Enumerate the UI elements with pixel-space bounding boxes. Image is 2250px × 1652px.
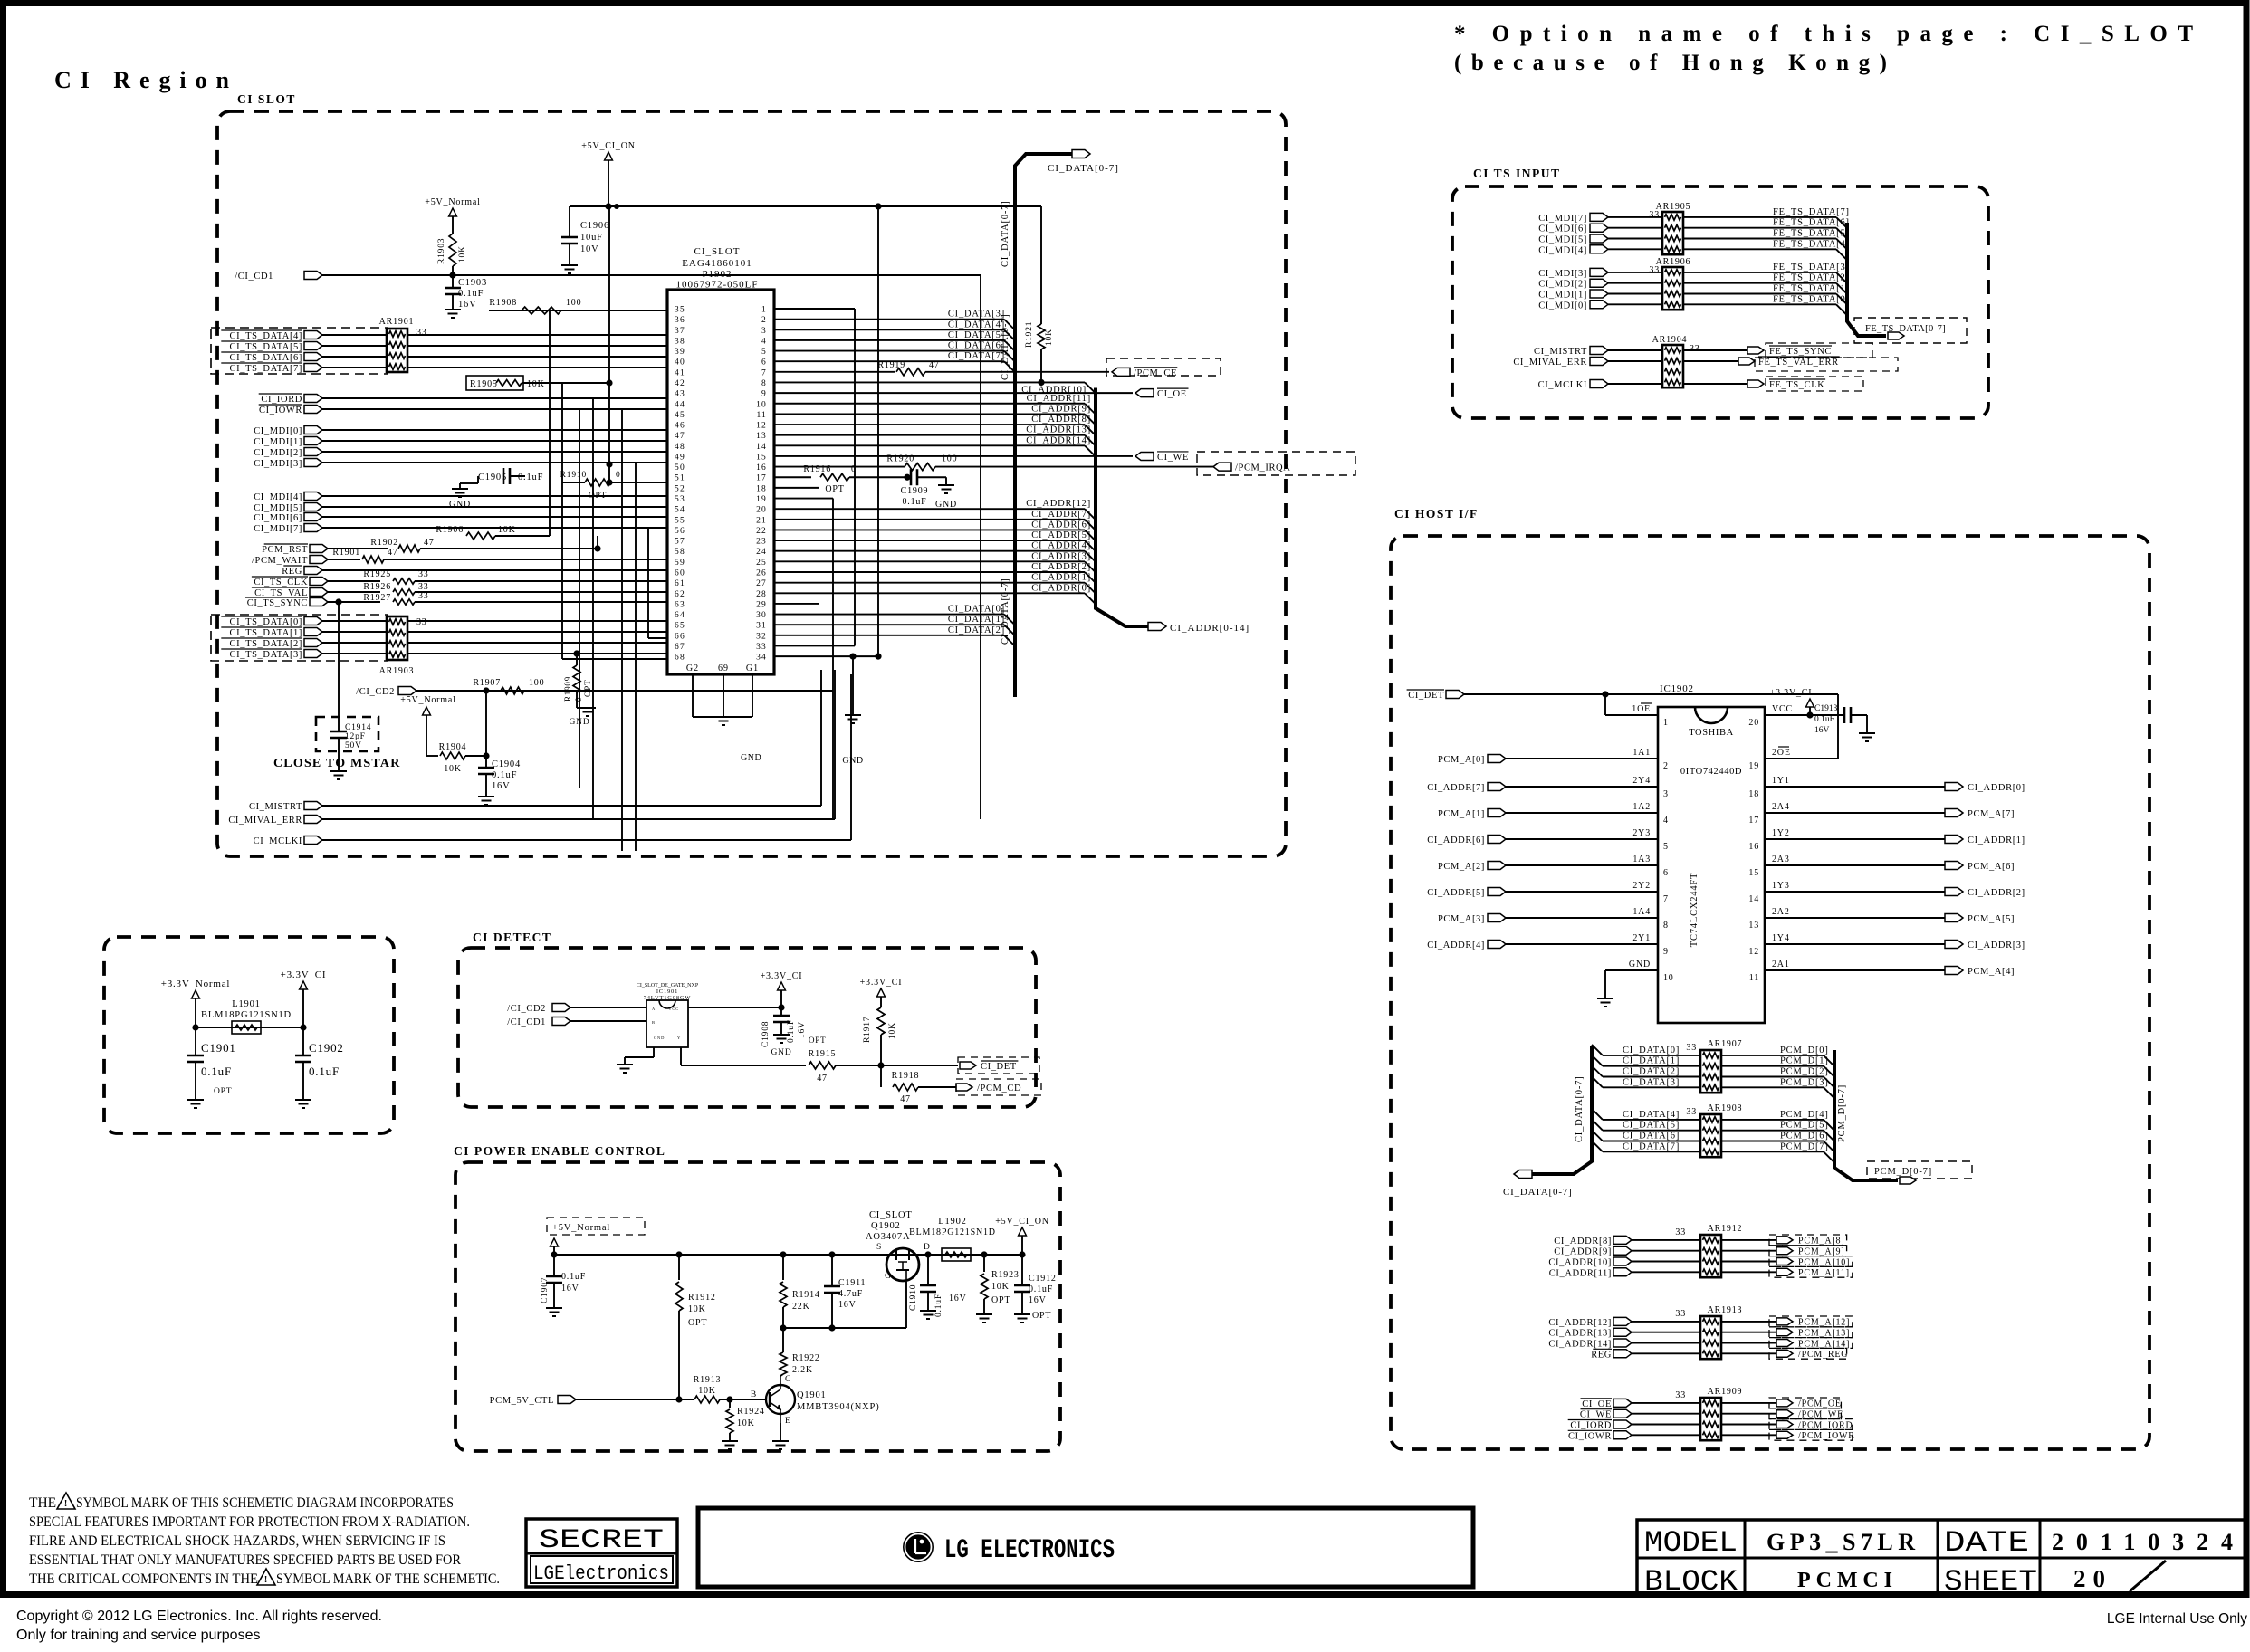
svg-text:19: 19 — [1748, 761, 1759, 771]
svg-text:2Y3: 2Y3 — [1632, 828, 1651, 838]
svg-text:CI_DATA[4]: CI_DATA[4] — [1623, 1110, 1680, 1120]
svg-text:18: 18 — [756, 484, 767, 493]
svg-text:MODEL: MODEL — [1644, 1526, 1738, 1560]
wires CI_ADDR lower rows — [774, 508, 1085, 510]
svg-text:OPT: OPT — [825, 484, 844, 494]
ground C1907 — [546, 1307, 562, 1309]
wire gate out — [680, 1047, 682, 1065]
capacitor C1911 — [831, 1255, 833, 1286]
svg-text:CI_MDI[1]: CI_MDI[1] — [1538, 291, 1587, 301]
svg-text:74LVT1G08GW: 74LVT1G08GW — [644, 995, 692, 1001]
ground C1903 — [445, 309, 461, 310]
svg-text:PCM_D[3]: PCM_D[3] — [1780, 1077, 1829, 1087]
bus CI_ADDR vertical — [1096, 387, 1148, 626]
ground C1902 — [295, 1099, 311, 1101]
svg-text:CI_DET: CI_DET — [1408, 691, 1444, 701]
svg-text:10K: 10K — [527, 379, 545, 389]
svg-text:48: 48 — [675, 443, 685, 452]
svg-text:FE_TS_DATA[0]: FE_TS_DATA[0] — [1773, 294, 1850, 304]
svg-text:CI_ADDR[12]: CI_ADDR[12] — [1548, 1318, 1612, 1328]
svg-text:10uF: 10uF — [580, 233, 603, 243]
svg-text:52: 52 — [675, 484, 685, 493]
svg-text:C1910: C1910 — [909, 1284, 918, 1311]
svg-text:BLM18PG121SN1D: BLM18PG121SN1D — [909, 1227, 996, 1237]
capacitor C1912 — [1021, 1255, 1023, 1285]
svg-text:0.1uF: 0.1uF — [309, 1065, 340, 1078]
resistor R1919 — [774, 371, 895, 373]
svg-text:16: 16 — [756, 463, 767, 473]
svg-text:12: 12 — [756, 422, 767, 431]
connector CI_WE — [774, 455, 1133, 457]
svg-text:6: 6 — [761, 358, 767, 368]
svg-text:0.1uF: 0.1uF — [561, 1272, 586, 1282]
bus CI_DATA host — [1532, 1046, 1592, 1174]
wires CI_DATA[0-2] rows — [774, 614, 1004, 616]
svg-text:16: 16 — [1748, 842, 1759, 852]
svg-text:FE_TS_VAL_ERR: FE_TS_VAL_ERR — [1758, 358, 1839, 368]
svg-text:16V: 16V — [492, 781, 510, 791]
svg-text:PCM_A[13]: PCM_A[13] — [1798, 1329, 1850, 1339]
svg-text:2.2K: 2.2K — [792, 1365, 813, 1375]
svg-text:CI_MDI[3]: CI_MDI[3] — [254, 459, 302, 469]
ground C1910 — [920, 1310, 936, 1312]
svg-text:PCM_D[1]: PCM_D[1] — [1780, 1056, 1829, 1066]
svg-text:CI_ADDR[2]: CI_ADDR[2] — [1031, 562, 1091, 572]
wires FE_TS_DATA[3-0] — [1683, 272, 1836, 273]
svg-text:/PCM_WE: /PCM_WE — [1798, 1410, 1843, 1420]
svg-text:16V: 16V — [1029, 1295, 1047, 1305]
svg-text:17: 17 — [1748, 816, 1759, 826]
svg-text:GND: GND — [570, 718, 590, 727]
resistor R1910 — [585, 479, 610, 486]
svg-text:12: 12 — [1748, 947, 1759, 957]
svg-text:CI_ADDR[12]: CI_ADDR[12] — [1026, 499, 1091, 509]
svg-text:PCM_A[10]: PCM_A[10] — [1798, 1257, 1850, 1267]
svg-text:/PCM_IRQA: /PCM_IRQA — [1235, 463, 1290, 473]
svg-text:CI_DATA[3]: CI_DATA[3] — [948, 310, 1005, 320]
svg-text:TOSHIBA: TOSHIBA — [1689, 728, 1734, 738]
svg-text:E: E — [785, 1417, 791, 1426]
svg-text:C1909: C1909 — [901, 486, 929, 496]
svg-text:CI_DATA[5]: CI_DATA[5] — [948, 330, 1005, 340]
connector CI_DATA[0-7] top — [1072, 150, 1090, 158]
svg-text:C: C — [785, 1375, 791, 1384]
svg-text:PCM_A[12]: PCM_A[12] — [1798, 1318, 1850, 1328]
svg-text:CI_ADDR[0-14]: CI_ADDR[0-14] — [1170, 623, 1249, 634]
resistor array AR1905 — [1662, 212, 1683, 254]
svg-text:50: 50 — [675, 463, 685, 473]
svg-text:54: 54 — [675, 506, 685, 515]
svg-text:14: 14 — [1748, 894, 1759, 904]
connector PCM_D[0-7] — [1867, 1161, 1972, 1179]
capacitor C1906 — [569, 206, 570, 237]
svg-text:CI_MDI[6]: CI_MDI[6] — [254, 513, 302, 523]
svg-text:C1911: C1911 — [838, 1278, 866, 1288]
svg-text:100: 100 — [942, 454, 957, 464]
svg-text:PCM_A[14]: PCM_A[14] — [1798, 1339, 1850, 1349]
svg-text:61: 61 — [675, 579, 685, 588]
svg-text:R1915: R1915 — [809, 1049, 837, 1059]
svg-text:22K: 22K — [792, 1302, 810, 1312]
wire row19 stub — [774, 498, 833, 500]
svg-text:2: 2 — [1663, 761, 1669, 771]
ground C1914 — [330, 770, 347, 772]
svg-text:AR1901: AR1901 — [379, 317, 415, 327]
svg-text:47: 47 — [424, 538, 435, 548]
wires CI_DATA[3-7] rows — [774, 319, 1004, 320]
svg-text:PCM_D[0-7]: PCM_D[0-7] — [1874, 1167, 1932, 1177]
svg-text:R1901: R1901 — [332, 548, 360, 558]
dashed bracket CI_TS_DATA[4-7] — [211, 328, 388, 374]
power +3.3V_CI det2 — [877, 988, 886, 997]
svg-text:1A3: 1A3 — [1632, 855, 1651, 864]
svg-text:CI_MDI[0]: CI_MDI[0] — [1538, 301, 1587, 310]
svg-text:18: 18 — [1748, 789, 1759, 799]
ground C1905 — [460, 482, 471, 484]
svg-text:AR1913: AR1913 — [1708, 1305, 1743, 1315]
capacitor C1910 — [927, 1255, 929, 1285]
svg-text:PCM_D[2]: PCM_D[2] — [1780, 1067, 1829, 1077]
svg-text:EAG41860101: EAG41860101 — [682, 258, 752, 269]
svg-text:22: 22 — [756, 527, 767, 536]
svg-text:VCC: VCC — [668, 1007, 679, 1011]
transistor Q1901 — [766, 1385, 795, 1414]
ground C1909 — [945, 477, 947, 485]
wire top rail — [570, 205, 1041, 207]
svg-text:50V: 50V — [345, 741, 362, 750]
wire CI_DET net — [1464, 693, 1838, 695]
ground Q1901 — [780, 1423, 781, 1441]
svg-text:25: 25 — [756, 559, 767, 568]
svg-text:CI_MDI[4]: CI_MDI[4] — [254, 492, 302, 502]
svg-text:CI_DATA[7]: CI_DATA[7] — [1623, 1141, 1680, 1151]
svg-text:7: 7 — [761, 368, 767, 377]
svg-text:R1908: R1908 — [489, 298, 517, 308]
label +5V_Normal dashed — [547, 1218, 645, 1235]
wire strand a — [561, 383, 563, 659]
svg-text:17: 17 — [756, 474, 767, 483]
svg-text:1Y1: 1Y1 — [1772, 776, 1790, 786]
wire CI_CD1 drop — [980, 275, 981, 819]
wire row34 to gnd — [774, 655, 878, 657]
ground R1923 — [976, 1313, 992, 1315]
svg-text:OPT: OPT — [583, 680, 592, 697]
svg-text:43: 43 — [675, 390, 685, 399]
svg-text:CI_ADDR[8]: CI_ADDR[8] — [1031, 415, 1091, 425]
capacitor C1907 — [553, 1255, 555, 1276]
svg-text:33: 33 — [418, 569, 429, 579]
svg-text:1Y3: 1Y3 — [1772, 881, 1790, 891]
svg-text:5: 5 — [761, 348, 767, 357]
svg-text:FE_TS_DATA[2]: FE_TS_DATA[2] — [1773, 273, 1850, 283]
svg-text:PCM_A[0]: PCM_A[0] — [1438, 755, 1485, 765]
svg-text:9: 9 — [761, 390, 767, 399]
svg-text:16V: 16V — [561, 1284, 579, 1294]
svg-text:CI_DATA[6]: CI_DATA[6] — [948, 341, 1005, 351]
svg-text:33: 33 — [418, 591, 429, 601]
svg-text:CI_TS_DATA[0]: CI_TS_DATA[0] — [230, 617, 302, 627]
svg-text:CI_ADDR[13]: CI_ADDR[13] — [1548, 1329, 1612, 1339]
svg-text:10K: 10K — [444, 764, 462, 774]
svg-text:10K: 10K — [991, 1282, 1010, 1292]
svg-text:2A2: 2A2 — [1772, 907, 1790, 917]
capacitor C1903 — [452, 275, 454, 288]
svg-text:0.1uF: 0.1uF — [458, 289, 484, 299]
svg-text:Q1901: Q1901 — [797, 1390, 827, 1400]
svg-text:41: 41 — [675, 368, 685, 377]
svg-text:IC1902: IC1902 — [1660, 683, 1694, 694]
svg-text:CI_ADDR[3]: CI_ADDR[3] — [1031, 551, 1091, 561]
resistor array AR1912 — [1700, 1235, 1721, 1277]
svg-text:R1921: R1921 — [1025, 321, 1034, 348]
svg-text:+5V_Normal: +5V_Normal — [425, 197, 480, 207]
svg-text:20: 20 — [756, 506, 767, 515]
svg-text:CI HOST I/F: CI HOST I/F — [1394, 507, 1479, 520]
svg-text:CI_TS_DATA[5]: CI_TS_DATA[5] — [230, 342, 302, 352]
svg-text:+5V_Normal: +5V_Normal — [552, 1223, 610, 1233]
svg-text:11: 11 — [1749, 973, 1759, 983]
svg-text:CI_OE: CI_OE — [1582, 1399, 1612, 1409]
svg-text:CI_TS_DATA[2]: CI_TS_DATA[2] — [230, 639, 302, 649]
wire L1901 rail — [196, 1027, 303, 1028]
svg-text:PCM_A[8]: PCM_A[8] — [1798, 1237, 1844, 1246]
svg-text:CI DETECT: CI DETECT — [473, 931, 551, 944]
svg-text:R1920: R1920 — [886, 454, 914, 464]
svg-text:56: 56 — [675, 527, 685, 536]
svg-text:L1902: L1902 — [938, 1217, 966, 1227]
connector /PCM_CE — [1106, 358, 1221, 376]
svg-text:+3.3V_CI: +3.3V_CI — [860, 978, 903, 988]
svg-text:0.1uF: 0.1uF — [1814, 715, 1834, 724]
capacitor C1901 — [195, 1027, 196, 1055]
svg-text:53: 53 — [675, 495, 685, 504]
power +5V_Normal — [449, 208, 457, 216]
svg-text:CI_MDI[2]: CI_MDI[2] — [1538, 280, 1587, 290]
svg-text:CI_DATA[3]: CI_DATA[3] — [1623, 1077, 1680, 1087]
wire gate vcc — [688, 1007, 781, 1008]
svg-text:LG ELECTRONICS: LG ELECTRONICS — [944, 1535, 1115, 1566]
svg-text:CI_DATA[1]: CI_DATA[1] — [1623, 1056, 1680, 1066]
svg-text:FE_TS_DATA[7]: FE_TS_DATA[7] — [1773, 207, 1850, 217]
svg-text:CI_DATA[5]: CI_DATA[5] — [1623, 1121, 1680, 1131]
ground R1924 — [722, 1440, 738, 1442]
svg-text:R1913: R1913 — [694, 1375, 722, 1385]
CI TS INPUT dashed box — [1452, 186, 1988, 418]
svg-text:38: 38 — [675, 337, 685, 346]
L1901 dashed box — [104, 937, 394, 1133]
svg-text:R1906: R1906 — [436, 525, 464, 535]
svg-text:AR1904: AR1904 — [1652, 335, 1688, 345]
svg-text:PCM_A[7]: PCM_A[7] — [1968, 809, 2015, 819]
resistor array AR1908 — [1700, 1114, 1721, 1157]
svg-text:33: 33 — [1649, 210, 1660, 220]
bus FE_TS_DATA — [1847, 223, 1886, 336]
svg-text:FE_TS_DATA[1]: FE_TS_DATA[1] — [1773, 284, 1850, 294]
svg-text:C1908: C1908 — [761, 1021, 771, 1047]
svg-text:1A1: 1A1 — [1632, 748, 1651, 758]
svg-text:1A4: 1A4 — [1632, 907, 1651, 917]
ferrite bead L1902 — [942, 1248, 971, 1261]
svg-text:+3.3V_Normal: +3.3V_Normal — [161, 979, 231, 989]
svg-text:REG: REG — [282, 567, 302, 577]
wire gate gnd — [653, 1047, 655, 1057]
svg-text:CI_IORD: CI_IORD — [261, 395, 302, 405]
svg-text:10: 10 — [756, 400, 767, 409]
svg-text:R1914: R1914 — [792, 1290, 820, 1300]
svg-text:5: 5 — [1663, 842, 1669, 852]
svg-text:CI_ADDR[6]: CI_ADDR[6] — [1427, 836, 1485, 845]
CI SLOT dashed box — [217, 111, 1286, 856]
svg-text:CI_SLOT: CI_SLOT — [694, 246, 741, 257]
svg-text:1A2: 1A2 — [1632, 802, 1651, 812]
svg-text:20: 20 — [1748, 718, 1759, 728]
power +5V_CI_ON pwr — [1019, 1227, 1027, 1236]
ground C1913 — [1859, 732, 1875, 734]
svg-text:100: 100 — [566, 298, 581, 308]
svg-text:C1912: C1912 — [1029, 1274, 1057, 1284]
resistor array AR1901 — [387, 329, 407, 372]
svg-text:16V: 16V — [458, 300, 476, 310]
svg-text:R1916: R1916 — [803, 464, 831, 474]
svg-text:GND: GND — [449, 500, 471, 510]
bus CI_DATA vertical — [1015, 154, 1074, 697]
signals IC1902 outputs — [1765, 786, 1945, 788]
svg-text:CI_ADDR[5]: CI_ADDR[5] — [1031, 530, 1091, 540]
svg-text:0.1uF: 0.1uF — [934, 1294, 943, 1317]
wires AR1908 rows — [1592, 1109, 1603, 1120]
svg-text:CI_WE: CI_WE — [1580, 1410, 1612, 1420]
svg-text:19: 19 — [756, 495, 767, 504]
svg-text:CI_TS_DATA[6]: CI_TS_DATA[6] — [230, 353, 302, 363]
svg-text:0.1uF: 0.1uF — [201, 1065, 232, 1078]
resistor R1918 — [880, 1065, 882, 1087]
svg-text:4: 4 — [1663, 816, 1669, 826]
svg-text:R1910: R1910 — [560, 471, 587, 480]
svg-text:OPT: OPT — [991, 1295, 1010, 1305]
svg-text:OPT: OPT — [1032, 1311, 1051, 1321]
svg-text:CI_MDI[0]: CI_MDI[0] — [254, 426, 302, 436]
wire strand c — [621, 409, 623, 851]
svg-text:/CI_CD1: /CI_CD1 — [235, 272, 273, 282]
svg-text:60: 60 — [675, 569, 685, 578]
svg-text:AR1903: AR1903 — [379, 666, 415, 676]
svg-text:/PCM_CE: /PCM_CE — [1134, 368, 1177, 378]
svg-text:63: 63 — [675, 600, 685, 609]
svg-text:* Option name of this page : C: * Option name of this page : CI_SLOT — [1454, 22, 2193, 46]
resistor R1924 — [729, 1399, 731, 1408]
svg-text:AR1905: AR1905 — [1656, 202, 1691, 212]
connector FE_TS_CLK — [1683, 383, 1747, 385]
wire R1908 row — [489, 310, 667, 311]
wire IC GND pin — [1605, 969, 1658, 971]
svg-text:AR1909: AR1909 — [1708, 1387, 1743, 1397]
svg-text:REG: REG — [1591, 1350, 1612, 1360]
svg-text:DATE: DATE — [1944, 1526, 2029, 1560]
svg-text:CI_TS_DATA[1]: CI_TS_DATA[1] — [230, 628, 302, 638]
resistor R1908 — [522, 307, 561, 314]
svg-text:0: 0 — [574, 697, 583, 702]
resistor R1912 — [678, 1255, 680, 1280]
svg-text:10K: 10K — [888, 1022, 897, 1039]
svg-text:R1918: R1918 — [892, 1071, 920, 1081]
resistor array AR1907 — [1700, 1050, 1721, 1093]
svg-text:47: 47 — [675, 432, 685, 441]
ferrite bead L1901 — [232, 1021, 261, 1034]
svg-text:CI_TS_DATA[4]: CI_TS_DATA[4] — [230, 331, 302, 341]
svg-text:CI_DATA[0-7]: CI_DATA[0-7] — [1001, 201, 1010, 268]
svg-text:16V: 16V — [1814, 726, 1830, 735]
svg-text:CI_MDI[4]: CI_MDI[4] — [1538, 245, 1587, 255]
capacitor C1914 — [330, 731, 347, 733]
svg-text:10K: 10K — [737, 1418, 755, 1428]
svg-text:OPT: OPT — [688, 1318, 707, 1328]
resistor R1922 — [782, 1351, 784, 1352]
svg-text:36: 36 — [675, 316, 685, 325]
svg-text:CI_ADDR[14]: CI_ADDR[14] — [1026, 435, 1091, 445]
svg-text:CI_ADDR[0]: CI_ADDR[0] — [1031, 583, 1091, 593]
resistor R1913 — [694, 1396, 720, 1403]
svg-text:CI_ADDR[4]: CI_ADDR[4] — [1031, 541, 1091, 551]
svg-text:33: 33 — [1675, 1227, 1686, 1237]
svg-text:58: 58 — [675, 548, 685, 557]
svg-text:CI_OE: CI_OE — [1157, 389, 1187, 399]
svg-text:33: 33 — [1690, 344, 1700, 354]
resistor array AR1909 — [1700, 1398, 1721, 1440]
svg-text:GND: GND — [771, 1048, 792, 1057]
connector /PCM_CD — [956, 1084, 972, 1091]
svg-text:G1: G1 — [746, 664, 759, 673]
svg-text:1Y4: 1Y4 — [1772, 933, 1790, 943]
svg-text:FE_TS_DATA[0-7]: FE_TS_DATA[0-7] — [1865, 324, 1946, 334]
svg-text:R1923: R1923 — [991, 1270, 1020, 1280]
svg-text:0: 0 — [616, 471, 621, 480]
svg-text:CI_DATA[7]: CI_DATA[7] — [948, 351, 1005, 361]
svg-text:!: ! — [264, 1574, 268, 1585]
svg-text:CI_ADDR[5]: CI_ADDR[5] — [1427, 888, 1485, 898]
svg-text:47: 47 — [929, 360, 940, 370]
svg-text:G: G — [885, 1272, 892, 1281]
svg-text:FE_TS_DATA[3]: FE_TS_DATA[3] — [1773, 263, 1850, 272]
svg-text:CI_WE: CI_WE — [1157, 453, 1189, 463]
wire strand b — [608, 206, 610, 482]
resistor R1921 — [1040, 320, 1042, 324]
svg-text:CI_DATA[0-7]: CI_DATA[0-7] — [1048, 163, 1119, 174]
svg-text:GND: GND — [1629, 960, 1651, 969]
resistor R1917 — [877, 1007, 885, 1035]
svg-text:VCC: VCC — [1772, 704, 1793, 714]
dashed box CLOSE TO MSTAR — [316, 717, 378, 751]
wires FE_TS_DATA[7-4] — [1683, 216, 1836, 218]
power +5V_Normal arrow — [551, 1238, 559, 1246]
wire strand d — [635, 463, 637, 851]
mosfet Q1902 — [886, 1248, 919, 1281]
svg-text:PCM_D[4]: PCM_D[4] — [1780, 1110, 1829, 1120]
svg-text:CI_DATA[1]: CI_DATA[1] — [948, 615, 1005, 625]
svg-text:CI_TS_VAL: CI_TS_VAL — [254, 588, 308, 598]
svg-text:9: 9 — [1663, 947, 1669, 957]
svg-text:C1903: C1903 — [458, 278, 487, 288]
svg-text:+5V_Normal: +5V_Normal — [400, 695, 455, 705]
dashed bracket CI_TS_DATA[0-3] — [211, 615, 388, 661]
svg-text:CI_MDI[5]: CI_MDI[5] — [1538, 235, 1587, 245]
svg-text:CI_MDI[5]: CI_MDI[5] — [254, 503, 302, 513]
svg-text:10K: 10K — [698, 1386, 716, 1396]
svg-text:3: 3 — [761, 327, 767, 336]
svg-text:CI_ADDR[0]: CI_ADDR[0] — [1968, 783, 2025, 793]
svg-text:CI_TS_DATA[3]: CI_TS_DATA[3] — [230, 650, 302, 660]
svg-text:R1917: R1917 — [863, 1017, 872, 1043]
wire gate node — [783, 1327, 906, 1329]
